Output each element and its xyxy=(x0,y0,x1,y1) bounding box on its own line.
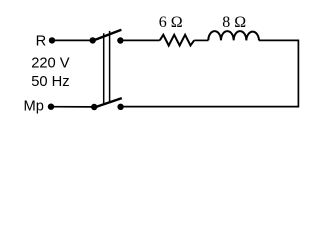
svg-text:R: R xyxy=(36,33,47,49)
switch S mechanical linkage line 1 xyxy=(103,33,105,104)
switch S top pole right contact dot xyxy=(117,37,123,43)
wire switch to resistor xyxy=(120,39,159,41)
switch S top blade xyxy=(91,30,121,42)
wire Mp to switch bottom pole xyxy=(51,106,94,108)
svg-text:8 Ω: 8 Ω xyxy=(222,14,246,31)
terminal dot Mp xyxy=(48,104,54,110)
svg-text:220 V: 220 V xyxy=(31,56,70,72)
svg-text:Mp: Mp xyxy=(24,98,44,114)
wire resistor to inductor xyxy=(194,39,208,41)
switch S top pole left contact dot xyxy=(90,37,96,43)
switch S bottom blade xyxy=(93,98,122,108)
switch S bottom pole left contact dot xyxy=(91,104,97,110)
terminal dot R xyxy=(49,37,55,43)
resistor 6 Ohm zigzag xyxy=(160,35,194,46)
switch S mechanical linkage line 2 xyxy=(109,31,111,103)
wire R to switch top pole xyxy=(52,39,93,41)
inductor 8 Ohm coil xyxy=(208,31,259,40)
svg-text:6 Ω: 6 Ω xyxy=(159,14,183,31)
svg-text:50 Hz: 50 Hz xyxy=(31,74,69,90)
switch S bottom pole right contact dot xyxy=(117,104,123,110)
wire inductor to right corner, down right side, back along bottom to switch xyxy=(121,40,299,106)
